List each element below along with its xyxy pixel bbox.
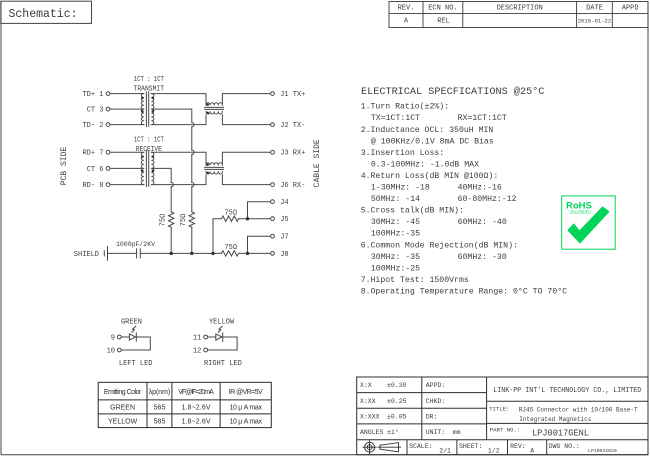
svg-text:±0.30: ±0.30 — [387, 382, 407, 389]
svg-text:30MHz: -45: 30MHz: -45 — [371, 218, 420, 227]
ground bus wire from C1 to J8 — [140, 252, 221, 254]
page border right — [647, 2, 649, 455]
J labels right — [280, 91, 305, 259]
svg-text:REV:: REV: — [510, 443, 526, 450]
svg-text:565: 565 — [154, 405, 166, 412]
svg-text:DR:: DR: — [426, 413, 438, 420]
svg-text:75Ω: 75Ω — [160, 214, 168, 227]
svg-text:CT 3: CT 3 — [87, 107, 104, 115]
svg-text:60-80MHz:-12: 60-80MHz:-12 — [458, 195, 517, 204]
svg-text:X:XX: X:XX — [360, 398, 376, 405]
wire pin11 to LED D2 — [208, 336, 216, 338]
transformer T2 primary winding — [141, 152, 144, 184]
transformer T1 core — [145, 92, 147, 127]
svg-text:LEFT LED: LEFT LED — [119, 360, 153, 368]
svg-text:±0.25: ±0.25 — [387, 398, 407, 405]
LED pin number labels — [107, 334, 202, 355]
svg-text:1000pF/2KV: 1000pF/2KV — [116, 241, 155, 248]
wire T2 secondary center tap to R1 (with hop) — [151, 168, 171, 182]
svg-text:J3 RX+: J3 RX+ — [280, 150, 305, 158]
svg-text:X:X: X:X — [360, 382, 372, 389]
projection symbol circle — [363, 440, 402, 454]
svg-text:Schematic:: Schematic: — [9, 8, 78, 21]
svg-text:1.8~2.6V: 1.8~2.6V — [182, 405, 211, 412]
svg-text:7.Hipot Test: 1500Vrms: 7.Hipot Test: 1500Vrms — [361, 275, 469, 285]
svg-text:PCB SIDE: PCB SIDE — [60, 147, 69, 186]
choke L1 core — [205, 106, 224, 108]
choke L1 top winding — [206, 103, 222, 106]
wire R2 bottom to ground bus — [191, 227, 193, 253]
svg-text:TRANSMIT: TRANSMIT — [134, 85, 165, 93]
J terminal circles right — [271, 92, 275, 256]
choke L2 core — [205, 166, 224, 168]
svg-text:SHIELD: SHIELD — [74, 251, 99, 259]
svg-text:J4: J4 — [280, 199, 288, 207]
page border bottom — [1, 454, 648, 456]
wire T1 secondary bottom to choke L1 — [151, 115, 206, 125]
transformer T2 secondary winding — [151, 152, 154, 184]
transformer T2 core — [145, 151, 147, 187]
capacitor C1 1000pF/2KV plates — [136, 249, 138, 258]
svg-text:TX=1CT:1CT: TX=1CT:1CT — [371, 114, 420, 123]
svg-text:10 μ A max: 10 μ A max — [229, 418, 262, 425]
svg-text:RIGHT LED: RIGHT LED — [204, 360, 242, 368]
svg-text:100MHz:-35: 100MHz:-35 — [371, 230, 420, 239]
shield pin symbol — [103, 251, 105, 256]
svg-text:75Ω: 75Ω — [224, 210, 237, 218]
svg-text:J8: J8 — [280, 251, 288, 259]
svg-text:REV.: REV. — [398, 5, 415, 13]
svg-text:J7: J7 — [280, 234, 288, 242]
wire R3 to J5 — [239, 218, 271, 220]
svg-text:12: 12 — [193, 347, 201, 355]
svg-text:60MHz: -40: 60MHz: -40 — [458, 218, 507, 227]
svg-text:DATE: DATE — [586, 5, 603, 13]
svg-text:YELLOW: YELLOW — [209, 319, 235, 327]
wire T2 secondary bottom to choke L2 — [151, 175, 206, 185]
svg-text:585: 585 — [154, 418, 166, 425]
svg-text:VF@IF=20mA: VF@IF=20mA — [178, 389, 214, 396]
svg-text:RECEIVE: RECEIVE — [136, 146, 162, 154]
wire choke L2 bottom right to J6 — [222, 175, 270, 185]
svg-text:UNIT:: UNIT: — [426, 429, 446, 436]
svg-text:11: 11 — [193, 334, 201, 342]
transformer T1 secondary winding — [151, 94, 153, 125]
LED table GREEN row — [110, 405, 262, 412]
wire node to J4 — [248, 202, 271, 219]
wire pin7 RD+ to T2 — [110, 151, 144, 153]
transformer T1 primary winding — [141, 94, 143, 125]
svg-text:GREEN: GREEN — [121, 319, 142, 327]
phase dots T1 T2 L1 L2 — [141, 97, 209, 174]
svg-text:LINK-PP INT'L TECHNOLOGY CO.,: LINK-PP INT'L TECHNOLOGY CO., LIMITED — [493, 387, 641, 395]
title block column lines — [421, 377, 423, 440]
svg-text:Emitting Color: Emitting Color — [104, 389, 142, 396]
page border left — [0, 1, 2, 455]
svg-text:1CT : 1CT: 1CT : 1CT — [134, 76, 164, 84]
wire choke L1 top right to J1 — [222, 94, 270, 104]
pin terminal circles left — [106, 92, 110, 187]
svg-text:SHEET:: SHEET: — [459, 443, 482, 450]
title block bottom row dividers — [406, 440, 408, 455]
schematic title box — [1, 1, 92, 23]
revision table — [389, 2, 648, 28]
wire pin6 CT to T2 — [110, 167, 144, 169]
svg-text:9: 9 — [111, 334, 115, 342]
LED D1 triangle — [129, 334, 135, 340]
svg-text:1/2: 1/2 — [488, 448, 500, 455]
svg-text:λp(nm): λp(nm) — [149, 389, 171, 396]
svg-text:DESCRIPTION: DESCRIPTION — [497, 5, 543, 13]
choke L1 bottom winding — [206, 111, 222, 114]
svg-text:RJ45 Connector with 10/100 Bas: RJ45 Connector with 10/100 Base-T — [519, 407, 638, 414]
LED D2 emission arrow — [218, 326, 222, 332]
LED D2 triangle — [216, 334, 222, 340]
svg-text:RD+ 7: RD+ 7 — [82, 150, 103, 158]
svg-text:100MHz:-25: 100MHz:-25 — [371, 264, 420, 273]
title block outer frame — [357, 377, 648, 455]
svg-text:1CT : 1CT: 1CT : 1CT — [134, 137, 164, 145]
resistor R3 75ohm horizontal — [222, 216, 239, 221]
svg-text:J6 RX-: J6 RX- — [280, 182, 305, 190]
svg-text:TD- 2: TD- 2 — [82, 122, 103, 130]
svg-text:REL: REL — [437, 18, 450, 26]
choke L2 top winding — [206, 163, 222, 166]
svg-text:A: A — [404, 18, 409, 26]
wire T1 secondary center tap to R2 (with hops) — [151, 109, 191, 122]
wire D1 cathode loop to pin10 — [121, 337, 150, 350]
svg-text:±0.05: ±0.05 — [387, 413, 407, 420]
junction dots ground bus — [170, 217, 250, 255]
resistor R1 75ohm vertical — [169, 212, 174, 227]
svg-text:2/1: 2/1 — [439, 448, 451, 455]
resistor R4 75ohm horizontal — [222, 251, 239, 256]
svg-text:2015-01-22: 2015-01-22 — [578, 17, 612, 24]
wire T2 secondary top to choke L2 — [151, 152, 206, 163]
svg-text:0.3-100MHz: -1.0dB MAX: 0.3-100MHz: -1.0dB MAX — [371, 159, 479, 169]
svg-text:CT 6: CT 6 — [87, 166, 104, 174]
svg-text:±1°: ±1° — [387, 428, 399, 436]
svg-text:@ 100KHz/0.1V 8mA DC Bias: @ 100KHz/0.1V 8mA DC Bias — [371, 136, 494, 146]
LED D1 cathode bar — [135, 333, 137, 341]
wire pin3 CT to T1 — [110, 108, 144, 110]
LED D2 cathode bar — [222, 333, 224, 341]
svg-text:2.Inductance OCL: 350uH MIN: 2.Inductance OCL: 350uH MIN — [361, 125, 494, 135]
svg-text:1.Turn Ratio(±2%):: 1.Turn Ratio(±2%): — [361, 102, 449, 112]
revision row A — [404, 17, 611, 25]
svg-text:8.Operating Temperature Range:: 8.Operating Temperature Range: 0°C TO 70… — [361, 287, 567, 297]
svg-text:ECN NO.: ECN NO. — [428, 5, 457, 13]
svg-text:6.Common Mode Rejection(dB MIN: 6.Common Mode Rejection(dB MIN): — [361, 240, 518, 250]
LED pin circles — [117, 335, 207, 352]
wire choke L2 top right to J3 — [222, 152, 270, 163]
LED D1 emission arrow — [132, 326, 136, 332]
svg-text:60MHz: -30: 60MHz: -30 — [458, 253, 507, 262]
wire D2 cathode loop to pin12 — [208, 337, 238, 350]
wire R1 bottom to ground bus — [170, 227, 172, 253]
svg-text:CHKD:: CHKD: — [426, 398, 446, 405]
svg-text:CABLE SIDE: CABLE SIDE — [313, 139, 322, 187]
svg-text:J2 TX-: J2 TX- — [280, 122, 305, 130]
svg-text:75Ω: 75Ω — [224, 244, 237, 252]
wire pin8 RD- to T2 — [110, 184, 144, 186]
svg-text:LPJ0017GENL: LPJ0017GENL — [532, 428, 589, 439]
svg-text:IR @VR=5V: IR @VR=5V — [229, 389, 263, 396]
svg-text:10 μ A max: 10 μ A max — [229, 405, 262, 412]
svg-text:SCALE:: SCALE: — [409, 443, 432, 450]
pin labels left — [82, 91, 103, 190]
svg-text:30MHz: -35: 30MHz: -35 — [371, 253, 420, 262]
svg-text:RX=1CT:1CT: RX=1CT:1CT — [458, 114, 507, 123]
resistor R2 75ohm vertical — [189, 212, 194, 227]
wire pin9 to LED D1 — [121, 336, 129, 338]
wire bus tap up to R3 — [213, 219, 222, 254]
svg-text:RD- 8: RD- 8 — [82, 182, 103, 190]
svg-text:ANGLES: ANGLES — [360, 429, 384, 436]
svg-text:J1 TX+: J1 TX+ — [280, 91, 305, 99]
svg-text:TITLE:: TITLE: — [489, 405, 509, 412]
svg-text:J5: J5 — [280, 216, 288, 224]
svg-text:APPD: APPD — [622, 5, 639, 13]
title block row lines left section — [357, 392, 487, 394]
svg-text:Integrated Magnetics: Integrated Magnetics — [519, 416, 591, 423]
svg-text:mm: mm — [453, 429, 461, 436]
svg-text:5.Cross talk(dB MIN):: 5.Cross talk(dB MIN): — [361, 206, 464, 216]
choke L2 bottom winding — [206, 171, 222, 174]
projection symbol cone — [380, 443, 399, 452]
wire pin2 TD- to T1 — [110, 124, 144, 126]
svg-text:10: 10 — [107, 347, 115, 355]
revision table header text — [398, 5, 639, 13]
svg-text:GREEN: GREEN — [110, 405, 135, 412]
title block right section row lines — [487, 400, 648, 402]
LED table YELLOW row — [108, 418, 262, 425]
svg-text:4.Return Loss(dB MIN @100Ω):: 4.Return Loss(dB MIN @100Ω): — [361, 171, 499, 181]
wire T1 secondary top to choke L1 — [151, 94, 206, 104]
svg-text:2011/65/EU: 2011/65/EU — [570, 210, 592, 215]
wire pin1 TD+ to T1 — [110, 93, 144, 95]
svg-text:LP10032020: LP10032020 — [588, 448, 617, 454]
LED table header row — [104, 389, 263, 396]
svg-text:ELECTRICAL SPECFICATIONS @25°C: ELECTRICAL SPECFICATIONS @25°C — [361, 86, 544, 98]
svg-text:1-30MHz: -18: 1-30MHz: -18 — [371, 184, 430, 193]
svg-text:75Ω: 75Ω — [180, 214, 188, 227]
svg-text:1.8~2.6V: 1.8~2.6V — [182, 418, 211, 425]
svg-text:50MHz: -14: 50MHz: -14 — [371, 195, 420, 204]
svg-text:YELLOW: YELLOW — [108, 418, 138, 425]
svg-text:DWG NO.:: DWG NO.: — [549, 443, 580, 450]
wire shield pin to capacitor C1 — [109, 252, 137, 254]
wire choke L1 bottom right to J2 — [222, 115, 270, 125]
svg-text:40MHz:-16: 40MHz:-16 — [458, 184, 502, 193]
svg-text:TD+ 1: TD+ 1 — [82, 91, 103, 99]
wire node to J7 — [248, 236, 271, 253]
svg-text:PART NO.:: PART NO.: — [490, 426, 520, 433]
svg-text:A: A — [530, 448, 534, 455]
svg-text:3.Insertion Loss:: 3.Insertion Loss: — [361, 148, 445, 158]
svg-text:X:XXX: X:XXX — [360, 413, 380, 420]
svg-text:APPD:: APPD: — [426, 382, 446, 389]
